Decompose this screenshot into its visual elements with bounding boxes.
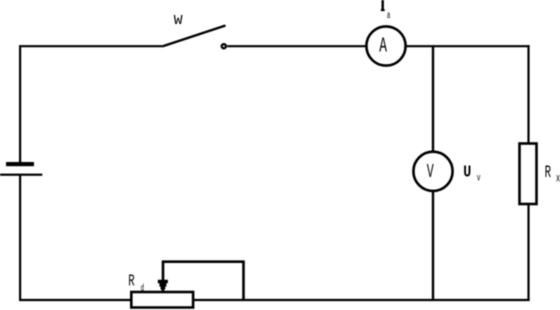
svg-text:a: a — [387, 11, 391, 22]
voltmeter V circle — [413, 152, 452, 191]
switch W contact circle — [222, 44, 226, 48]
rheostat R_d body — [131, 292, 193, 308]
wire bottom horizontal — [19, 299, 530, 301]
battery negative plate (long thin) — [0, 174, 42, 176]
wire switch to ammeter — [227, 45, 366, 47]
svg-text:U: U — [463, 163, 471, 182]
wire voltmeter branch upper — [432, 46, 434, 152]
battery positive plate (short thick) — [6, 162, 34, 166]
svg-text:R: R — [128, 272, 134, 291]
wire left vertical lower (battery to bottom) — [19, 175, 21, 301]
wire voltmeter branch lower — [432, 191, 434, 300]
svg-text:W: W — [174, 13, 183, 29]
rheostat wiper arrow — [158, 280, 168, 293]
rheostat wiper loop wire — [163, 262, 244, 299]
resistor R_x body — [520, 144, 537, 205]
wire ammeter to top-right corner — [406, 45, 530, 47]
wire left vertical upper (corner to battery) — [19, 45, 21, 163]
wire right vertical upper (corner to Rx) — [527, 45, 529, 144]
svg-text:v: v — [477, 174, 481, 185]
label I_a — [382, 0, 384, 10]
svg-text:x: x — [556, 171, 560, 185]
wire right vertical lower (Rx to bottom) — [527, 204, 529, 301]
wire top-left horizontal — [19, 45, 164, 47]
svg-text:R: R — [545, 163, 552, 183]
svg-text:A: A — [379, 35, 387, 58]
svg-text:d: d — [141, 283, 144, 295]
ammeter A circle — [366, 26, 405, 65]
svg-text:V: V — [427, 161, 434, 183]
switch W blade — [164, 26, 226, 47]
